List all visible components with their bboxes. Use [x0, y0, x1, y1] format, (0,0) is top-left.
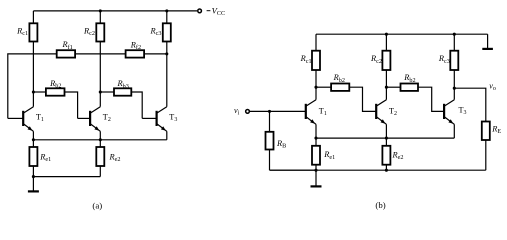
wire emitter rail (b) — [316, 137, 454, 139]
wire feedback left vertical to T1 base — [8, 54, 57, 119]
node junction T2 emitter (b) — [385, 137, 388, 140]
node junction T2 emitter — [99, 138, 102, 141]
resistor Re2 (a) — [99, 140, 101, 147]
svg-text:T3: T3 — [459, 106, 467, 117]
svg-text:Rb2: Rb2 — [333, 73, 345, 84]
svg-text:Rc3: Rc3 — [150, 26, 162, 37]
node junction T1 emitter (b) — [314, 137, 317, 140]
transistor T2 (a) — [78, 117, 91, 119]
svg-text:T2: T2 — [103, 113, 111, 124]
wire Rb2 left lead — [33, 91, 46, 93]
wire T1 emitter down (b) — [315, 124, 317, 138]
wire Rb3 to T3 base — [131, 92, 142, 118]
svg-text:Rc2: Rc2 — [83, 26, 95, 37]
resistor Rb2 first (b) — [331, 84, 349, 91]
svg-text:Rc1: Rc1 — [300, 54, 312, 65]
wire emitter rail (a) — [33, 139, 166, 141]
svg-text:(b): (b) — [375, 200, 385, 210]
node junction T1 collector / Rb2 — [32, 90, 35, 93]
transistor T3 (a) — [142, 117, 156, 119]
wire T1 emitter down — [32, 131, 34, 140]
svg-text:VCC: VCC — [212, 5, 226, 17]
wire Rf2 to T3 collector — [144, 53, 167, 55]
node junction Re1 bottom (b) — [314, 169, 317, 172]
wire T2 emitter down — [99, 131, 101, 140]
svg-text:vi: vi — [234, 106, 240, 117]
svg-text:Re2: Re2 — [109, 152, 121, 163]
svg-text:T1: T1 — [319, 107, 327, 118]
resistor Rf2 — [126, 50, 145, 57]
node junction Re2 bottom (b) — [385, 169, 388, 172]
wire T3 emitter down (b) — [453, 124, 455, 138]
resistor Rc1 (b) — [315, 34, 317, 51]
node junction T3 collector / feedback — [165, 52, 168, 55]
resistor Rb3 (a) — [114, 88, 131, 95]
resistor Rb2 (a) — [46, 88, 65, 95]
node junction ground (a) — [32, 175, 35, 178]
transistor T1 (a) — [8, 117, 23, 119]
wire Rb2-2 left lead — [386, 86, 400, 88]
wire RB bottom to rail — [270, 169, 317, 171]
node junction Rc2 top (a) — [99, 9, 102, 12]
resistor Rc2 (a) — [99, 11, 101, 23]
ground (a) — [32, 177, 34, 192]
svg-text:T1: T1 — [36, 113, 44, 124]
node junction T2 collector / Rb3 — [99, 90, 102, 93]
node junction Rc2 top (b) — [385, 33, 388, 36]
svg-text:(a): (a) — [92, 200, 102, 210]
ground bottom (b) — [315, 170, 317, 186]
node junction Rc3 top (b) — [453, 33, 456, 36]
wire Rb2-1 left lead — [316, 86, 331, 88]
resistor Rf1 — [57, 50, 75, 57]
wire vo line — [454, 88, 486, 121]
wire top supply rail (a) — [33, 10, 197, 12]
ground top right (b) — [487, 34, 489, 49]
wire T3 emitter down — [166, 131, 168, 140]
svg-text:Rb2: Rb2 — [403, 73, 415, 84]
svg-text:Re1: Re1 — [323, 150, 335, 161]
resistor Rc2 (b) — [385, 34, 387, 51]
wire Rb2-1 to T2 base — [349, 87, 376, 111]
resistor Rc1 (a) — [32, 11, 34, 23]
node junction T1 emitter — [32, 138, 35, 141]
wire vi to T1 base — [249, 110, 305, 112]
wire Rf1 to Rf2 — [75, 53, 126, 55]
transistor T1 (b) — [305, 110, 307, 112]
transistor T3 (b) — [443, 110, 445, 112]
svg-text:RE: RE — [491, 125, 501, 136]
node junction T2 collector / Rb2-2 — [385, 86, 388, 89]
svg-text:Rc3: Rc3 — [438, 54, 450, 65]
wire T2 emitter down (b) — [385, 124, 387, 138]
wire Rb3 left lead — [100, 91, 114, 93]
resistor Rc3 (a) — [166, 11, 168, 23]
svg-text:T3: T3 — [169, 113, 177, 124]
node junction T1 collector / Rb2-1 — [314, 86, 317, 89]
resistor RB — [269, 111, 271, 131]
wire Rb2-2 to T3 base — [418, 87, 444, 111]
node junction RB top — [268, 110, 271, 113]
resistor RE — [482, 122, 490, 141]
wire RE bottom — [485, 140, 487, 170]
wire top rail (b) — [316, 33, 488, 35]
resistor Rb2 second (b) — [401, 84, 419, 91]
svg-text:Rc2: Rc2 — [370, 54, 382, 65]
resistor Re1 (a) — [32, 140, 34, 147]
wire Rb2 to T2 base — [65, 92, 78, 118]
svg-text:RB: RB — [276, 139, 286, 150]
svg-text:Rf2: Rf2 — [130, 40, 141, 51]
resistor Rc3 (b) — [453, 34, 455, 51]
resistor Re1 (b) — [315, 138, 317, 146]
svg-text:Rf1: Rf1 — [62, 40, 73, 51]
node junction T3 collector / output — [453, 87, 456, 90]
svg-text:Re1: Re1 — [39, 152, 51, 163]
label -VCC — [207, 10, 211, 12]
svg-text:Rc1: Rc1 — [16, 26, 28, 37]
svg-text:Re2: Re2 — [392, 150, 404, 161]
wire bottom rail (b) — [270, 169, 486, 171]
svg-text:vo: vo — [489, 82, 496, 93]
svg-text:T2: T2 — [389, 107, 397, 118]
terminal vi — [246, 110, 250, 114]
resistor Re2 (b) — [385, 138, 387, 146]
wire bottom (a) — [33, 176, 100, 178]
transistor T2 (b) — [375, 110, 377, 112]
node junction Rc3 top (a) — [165, 9, 168, 12]
terminal -VCC — [198, 9, 202, 13]
